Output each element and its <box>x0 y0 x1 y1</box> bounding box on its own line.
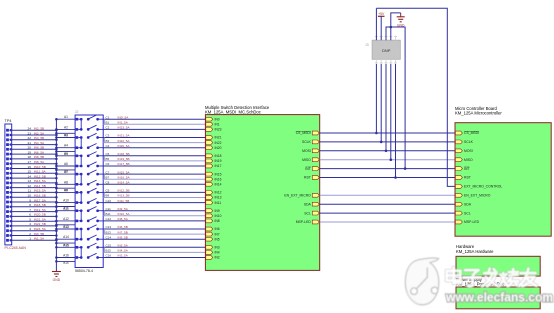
svg-text:SCL: SCL <box>464 211 471 215</box>
svg-text:IN20_5A: IN20_5A <box>118 144 131 148</box>
svg-text:IN11_5A: IN11_5A <box>34 170 47 174</box>
svg-text:18: 18 <box>28 155 32 159</box>
svg-text:IN6_5A: IN6_5A <box>34 150 45 154</box>
svg-text:IN22_5A: IN22_5A <box>118 139 131 143</box>
svg-text:IN1_5A: IN1_5A <box>118 121 129 125</box>
svg-text:19: 19 <box>28 150 32 154</box>
svg-text:A12: A12 <box>63 217 69 221</box>
svg-text:MOSI: MOSI <box>302 149 311 153</box>
svg-text:www.elecfans.com: www.elecfans.com <box>445 290 553 305</box>
svg-text:B9: B9 <box>106 194 110 198</box>
svg-text:IN22: IN22 <box>215 141 222 145</box>
svg-text:A9: A9 <box>64 188 68 192</box>
svg-text:IN13_5B: IN13_5B <box>118 194 130 198</box>
svg-text:A15: A15 <box>63 243 69 247</box>
svg-text:IN10_5B: IN10_5B <box>34 165 46 169</box>
svg-text:IN1_5A: IN1_5A <box>34 237 45 241</box>
svg-text:C9: C9 <box>106 189 110 193</box>
svg-text:15: 15 <box>28 170 32 174</box>
svg-text:IN17: IN17 <box>215 164 222 168</box>
svg-text:IN16: IN16 <box>215 177 222 181</box>
svg-text:C12: C12 <box>106 217 112 221</box>
svg-text:IN21_5A: IN21_5A <box>118 134 131 138</box>
svg-text:IN9: IN9 <box>215 209 220 213</box>
svg-text:14: 14 <box>28 174 32 178</box>
svg-text:IN8_5A: IN8_5A <box>34 160 45 164</box>
svg-text:C14: C14 <box>106 235 112 239</box>
svg-text:SCLK: SCLK <box>302 140 312 144</box>
svg-text:A10: A10 <box>63 199 69 203</box>
svg-text:2: 2 <box>29 232 31 236</box>
svg-text:10: 10 <box>28 194 32 198</box>
svg-text:C15: C15 <box>106 244 112 248</box>
svg-text:MOSI: MOSI <box>464 149 473 153</box>
svg-text:C11: C11 <box>106 207 112 211</box>
svg-text:IN20: IN20 <box>215 146 222 150</box>
svg-text:EN_EXT_MICRO: EN_EXT_MICRO <box>284 194 311 198</box>
svg-text:IN0: IN0 <box>215 117 220 121</box>
svg-text:IN21_5A: IN21_5A <box>34 218 47 222</box>
svg-text:8: 8 <box>29 203 31 207</box>
svg-text:J2: J2 <box>75 110 79 114</box>
svg-text:IN4_5A: IN4_5A <box>118 249 129 253</box>
svg-text:IN6_5B: IN6_5B <box>118 225 128 229</box>
svg-text:A14: A14 <box>63 235 69 239</box>
svg-text:IN14_5A: IN14_5A <box>118 181 131 185</box>
svg-text:IN5: IN5 <box>215 237 220 241</box>
svg-text:6: 6 <box>29 213 31 217</box>
svg-text:13: 13 <box>28 179 32 183</box>
svg-text:21: 21 <box>28 141 32 145</box>
svg-text:IN1: IN1 <box>215 123 220 127</box>
svg-text:B16: B16 <box>63 261 69 265</box>
svg-text:3: 3 <box>29 227 31 231</box>
svg-text:IN12_5B: IN12_5B <box>118 189 130 193</box>
svg-text:MISO: MISO <box>302 158 311 162</box>
svg-text:16: 16 <box>28 165 32 169</box>
svg-text:IN7_5B: IN7_5B <box>118 230 128 234</box>
svg-text:IN16_5B: IN16_5B <box>34 194 46 198</box>
svg-text:CS_MSDI: CS_MSDI <box>296 131 311 135</box>
svg-text:IN23_5A: IN23_5A <box>34 227 47 231</box>
svg-text:A13: A13 <box>63 225 69 229</box>
svg-text:IN2_5B: IN2_5B <box>34 127 44 131</box>
svg-text:CS_MSDI: CS_MSDI <box>464 131 479 135</box>
svg-text:IN14_5B: IN14_5B <box>34 184 46 188</box>
svg-text:SCLK: SCLK <box>464 140 474 144</box>
svg-text:IN23: IN23 <box>215 128 222 132</box>
svg-text:IN2_5A: IN2_5A <box>118 254 129 258</box>
svg-text:MSP-LED: MSP-LED <box>464 220 480 224</box>
svg-text:IN10_5A: IN10_5A <box>118 212 131 216</box>
svg-text:IN12: IN12 <box>215 191 222 195</box>
svg-text:MSP-LED: MSP-LED <box>296 220 312 224</box>
svg-text:IN10: IN10 <box>215 214 222 218</box>
svg-text:IN6_5B: IN6_5B <box>34 146 44 150</box>
svg-text:1: 1 <box>29 237 31 241</box>
svg-text:IN11_5B: IN11_5B <box>118 199 130 203</box>
svg-text:MISO: MISO <box>464 158 473 162</box>
svg-text:C10: C10 <box>106 199 112 203</box>
svg-text:GND: GND <box>53 278 61 282</box>
svg-text:KM_125A_MSDI_MC.SchDoc: KM_125A_MSDI_MC.SchDoc <box>205 109 261 114</box>
svg-text:A16: A16 <box>63 254 69 258</box>
svg-text:+5V: +5V <box>378 12 385 16</box>
svg-text:B1: B1 <box>106 121 110 125</box>
svg-text:IN19_5B: IN19_5B <box>118 157 130 161</box>
svg-text:C8: C8 <box>106 181 110 185</box>
svg-text:J3: J3 <box>365 43 369 47</box>
svg-text:4: 4 <box>29 222 31 226</box>
svg-text:C1: C1 <box>106 115 110 119</box>
svg-text:IN18_5B: IN18_5B <box>118 152 130 156</box>
svg-text:C16: C16 <box>106 254 112 258</box>
svg-text:KM_125A Microcontroller: KM_125A Microcontroller <box>455 111 502 116</box>
svg-text:B5: B5 <box>106 157 110 161</box>
svg-text:IN17_5B: IN17_5B <box>118 162 130 166</box>
svg-text:B3: B3 <box>106 139 110 143</box>
svg-text:IN9_5A: IN9_5A <box>118 207 129 211</box>
svg-text:RST: RST <box>304 176 311 180</box>
svg-text:IN7: IN7 <box>215 232 220 236</box>
svg-text:56504-78-4: 56504-78-4 <box>75 269 93 273</box>
svg-text:IN18: IN18 <box>215 154 222 158</box>
svg-text:INT: INT <box>464 167 469 171</box>
svg-text:A3: A3 <box>64 134 68 138</box>
svg-text:SCL: SCL <box>304 211 311 215</box>
svg-text:EN_EXT_MICRO: EN_EXT_MICRO <box>464 194 491 198</box>
svg-text:22: 22 <box>28 136 32 140</box>
svg-text:IN17_5A: IN17_5A <box>34 198 47 202</box>
svg-text:IN21: IN21 <box>215 136 222 140</box>
svg-text:DNP: DNP <box>382 48 391 53</box>
svg-text:C6: C6 <box>106 162 110 166</box>
svg-text:B13: B13 <box>106 230 112 234</box>
svg-text:IN0_5B: IN0_5B <box>34 232 44 236</box>
svg-text:KM_125A Hardware: KM_125A Hardware <box>456 249 494 254</box>
svg-text:IN19_5A: IN19_5A <box>34 208 47 212</box>
svg-text:C2: C2 <box>106 126 110 130</box>
svg-text:SDA: SDA <box>464 202 472 206</box>
svg-text:IN4_5B: IN4_5B <box>34 136 44 140</box>
svg-text:IN2: IN2 <box>215 256 220 260</box>
svg-text:A1: A1 <box>64 115 68 119</box>
svg-text:IN12_5B: IN12_5B <box>34 174 46 178</box>
svg-text:C5: C5 <box>106 152 110 156</box>
svg-text:IN13: IN13 <box>215 196 222 200</box>
svg-text:EXT_MICRO_CONTROL: EXT_MICRO_CONTROL <box>464 185 502 189</box>
svg-text:A5: A5 <box>64 152 68 156</box>
svg-text:C4: C4 <box>106 144 110 148</box>
svg-text:PI-C245 AAN: PI-C245 AAN <box>5 246 27 250</box>
svg-text:IN15_5A: IN15_5A <box>118 170 131 174</box>
svg-text:IN22_5B: IN22_5B <box>34 222 46 226</box>
svg-text:IN16_5A: IN16_5A <box>118 175 131 179</box>
svg-text:A7: A7 <box>64 170 68 174</box>
svg-text:20: 20 <box>28 146 32 150</box>
svg-text:IND_5A: IND_5A <box>118 115 130 119</box>
svg-text:C13: C13 <box>106 225 112 229</box>
svg-text:IN20_5B: IN20_5B <box>34 213 46 217</box>
svg-text:A4: A4 <box>64 144 68 148</box>
svg-text:IN8: IN8 <box>215 219 220 223</box>
svg-text:A8: A8 <box>64 180 68 184</box>
svg-text:IN13_5A: IN13_5A <box>34 179 47 183</box>
svg-text:SDA: SDA <box>304 202 312 206</box>
svg-text:B7: B7 <box>106 175 110 179</box>
svg-text:IN3_5A: IN3_5A <box>118 244 129 248</box>
svg-text:11: 11 <box>28 189 31 193</box>
svg-text:IN23_5A: IN23_5A <box>118 126 131 130</box>
svg-text:A2: A2 <box>64 125 68 129</box>
svg-text:23: 23 <box>28 131 32 135</box>
svg-text:9: 9 <box>29 198 31 202</box>
svg-text:RST: RST <box>464 176 471 180</box>
svg-text:IN14: IN14 <box>215 183 222 187</box>
svg-text:IN2_5A: IN2_5A <box>34 131 45 135</box>
svg-text:TP4: TP4 <box>5 119 12 123</box>
svg-text:B15: B15 <box>106 249 112 253</box>
svg-text:IN11: IN11 <box>215 201 222 205</box>
svg-text:C3: C3 <box>106 134 110 138</box>
svg-text:IN5_5B: IN5_5B <box>118 235 128 239</box>
svg-text:INT: INT <box>305 167 310 171</box>
svg-text:IN6: IN6 <box>215 227 220 231</box>
svg-text:IN4_5A: IN4_5A <box>34 141 45 145</box>
svg-text:IN18_5B: IN18_5B <box>34 203 46 207</box>
svg-text:17: 17 <box>28 160 32 164</box>
svg-text:5: 5 <box>29 218 31 222</box>
svg-text:12: 12 <box>28 184 32 188</box>
svg-text:IN4: IN4 <box>215 251 220 255</box>
svg-text:C7: C7 <box>106 170 110 174</box>
svg-text:24: 24 <box>28 127 32 131</box>
svg-text:IN19: IN19 <box>215 159 222 163</box>
svg-text:A6: A6 <box>64 162 68 166</box>
svg-text:IN3: IN3 <box>215 246 220 250</box>
svg-text:IN15: IN15 <box>215 172 222 176</box>
svg-text:7: 7 <box>29 208 31 212</box>
svg-text:IN8_5B: IN8_5B <box>34 155 44 159</box>
svg-text:A11: A11 <box>63 207 69 211</box>
svg-text:B11: B11 <box>106 212 111 216</box>
svg-text:IN15_5A: IN15_5A <box>34 189 47 193</box>
svg-text:IN8_5A: IN8_5A <box>118 217 129 221</box>
